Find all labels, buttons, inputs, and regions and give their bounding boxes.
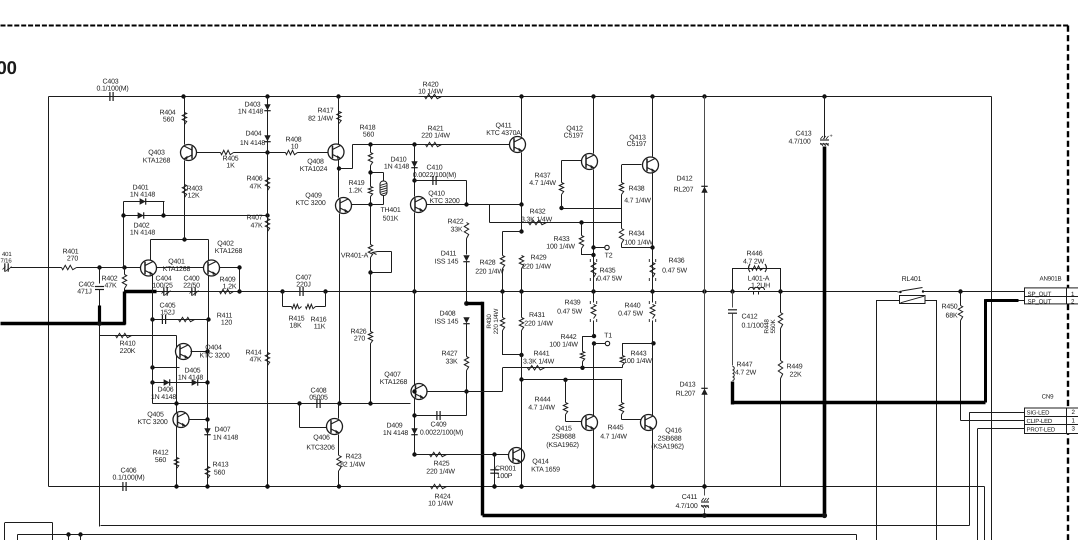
svg-text:CLIP-LED: CLIP-LED	[1027, 418, 1053, 425]
svg-text:C400: C400	[183, 276, 199, 283]
svg-text:0.0022/100(M): 0.0022/100(M)	[413, 171, 456, 179]
svg-text:C410: C410	[426, 165, 442, 172]
svg-text:0.1/100(M): 0.1/100(M)	[112, 474, 144, 482]
svg-text:R413: R413	[212, 462, 228, 469]
svg-text:CN9: CN9	[1042, 394, 1055, 401]
svg-text:R434: R434	[628, 231, 644, 238]
svg-text:T2: T2	[605, 253, 613, 260]
svg-text:401: 401	[2, 251, 12, 258]
svg-text:R414: R414	[245, 350, 261, 357]
svg-text:0.47 5W: 0.47 5W	[557, 309, 582, 316]
svg-text:68K: 68K	[946, 313, 958, 320]
svg-text:KTC 3200: KTC 3200	[295, 200, 325, 207]
svg-text:R449: R449	[786, 364, 802, 371]
svg-text:R427: R427	[441, 351, 457, 358]
svg-text:4.7 1/4W: 4.7 1/4W	[528, 404, 555, 412]
svg-text:10: 10	[291, 144, 299, 151]
svg-text:R426: R426	[350, 329, 366, 336]
svg-text:R412: R412	[152, 450, 168, 457]
svg-text:R420: R420	[422, 82, 438, 89]
svg-text:R403: R403	[186, 186, 202, 193]
svg-text:R424: R424	[434, 494, 450, 501]
svg-text:R401: R401	[62, 249, 78, 256]
svg-text:KTA1024: KTA1024	[300, 166, 328, 173]
svg-text:SP_OUT: SP_OUT	[1028, 291, 1052, 298]
svg-text:KTA1268: KTA1268	[163, 266, 191, 273]
svg-text:AN901B: AN901B	[1040, 276, 1062, 283]
svg-text:R433: R433	[553, 236, 569, 243]
svg-text:220 1/4W: 220 1/4W	[475, 268, 504, 276]
svg-text:47K: 47K	[250, 184, 262, 191]
svg-text:R428: R428	[479, 260, 495, 267]
svg-text:560: 560	[363, 132, 374, 139]
svg-text:120: 120	[221, 320, 232, 327]
svg-text:11K: 11K	[314, 324, 326, 331]
svg-text:18K: 18K	[290, 323, 302, 330]
svg-text:R430: R430	[486, 314, 493, 329]
svg-text:220 1/4W: 220 1/4W	[426, 468, 455, 476]
svg-text:Q415: Q415	[555, 426, 572, 433]
svg-text:(KSA1962): (KSA1962)	[651, 443, 684, 451]
svg-text:R447: R447	[736, 362, 752, 369]
svg-text:47K: 47K	[251, 223, 263, 230]
svg-text:D411: D411	[441, 251, 457, 258]
svg-text:R417: R417	[317, 108, 333, 115]
svg-text:C411: C411	[682, 494, 698, 501]
svg-text:R437: R437	[534, 173, 550, 180]
svg-text:1N 4148: 1N 4148	[130, 192, 155, 199]
svg-text:1.2K: 1.2K	[349, 188, 363, 195]
svg-text:82 1/4W: 82 1/4W	[308, 115, 333, 123]
svg-text:D409: D409	[386, 423, 402, 430]
svg-text:D402: D402	[133, 223, 149, 230]
svg-text:D412: D412	[676, 176, 692, 183]
svg-text:R419: R419	[348, 180, 364, 187]
svg-text:ISS 145: ISS 145	[435, 259, 459, 266]
svg-text:R441: R441	[533, 351, 549, 358]
svg-text:22/50: 22/50	[183, 282, 200, 290]
svg-text:4.7 2W: 4.7 2W	[743, 259, 765, 266]
svg-text:D401: D401	[132, 185, 148, 192]
svg-text:471J: 471J	[77, 289, 91, 296]
svg-text:KTC 3200: KTC 3200	[137, 419, 167, 426]
svg-text:560: 560	[163, 117, 174, 124]
svg-text:R443: R443	[630, 351, 646, 358]
svg-text:Q412: Q412	[566, 126, 583, 133]
svg-text:CR001: CR001	[495, 466, 516, 473]
svg-text:Q401: Q401	[168, 259, 185, 266]
svg-text:47K: 47K	[250, 357, 262, 364]
svg-text:0.0022/100(M): 0.0022/100(M)	[420, 429, 463, 437]
svg-text:R406: R406	[246, 176, 262, 183]
svg-text:R415: R415	[288, 316, 304, 323]
svg-text:R409: R409	[219, 277, 235, 284]
svg-text:220J: 220J	[296, 281, 310, 288]
svg-text:Q409: Q409	[305, 193, 322, 200]
svg-text:100 1/4W: 100 1/4W	[549, 341, 578, 349]
svg-text:560: 560	[155, 457, 166, 464]
svg-text:+: +	[829, 134, 832, 140]
svg-text:RL207: RL207	[676, 391, 696, 398]
svg-text:7/16: 7/16	[1, 258, 13, 265]
svg-text:R421: R421	[427, 126, 443, 133]
svg-text:1N 4148: 1N 4148	[238, 109, 263, 116]
svg-text:SP_OUT: SP_OUT	[1028, 299, 1052, 306]
svg-text:2SB688: 2SB688	[658, 436, 682, 443]
svg-text:R436: R436	[668, 258, 684, 265]
svg-text:1.2K: 1.2K	[223, 284, 237, 291]
svg-text:KTC3206: KTC3206	[306, 444, 335, 451]
svg-text:D410: D410	[390, 157, 406, 164]
svg-text:C406: C406	[120, 468, 136, 475]
svg-text:D407: D407	[214, 427, 230, 434]
svg-text:4.7 1/4W: 4.7 1/4W	[624, 197, 651, 205]
svg-text:R425: R425	[433, 461, 449, 468]
svg-text:550K: 550K	[770, 319, 777, 334]
svg-text:R404: R404	[159, 110, 175, 117]
svg-text:R418: R418	[359, 125, 375, 132]
svg-text:0.1/100: 0.1/100	[741, 322, 763, 330]
svg-text:100 1/4W: 100 1/4W	[624, 239, 653, 247]
svg-text:RL207: RL207	[674, 187, 694, 194]
svg-text:RL401: RL401	[902, 276, 922, 283]
svg-text:R438: R438	[628, 186, 644, 193]
svg-text:R429: R429	[530, 255, 546, 262]
svg-text:KTA1268: KTA1268	[215, 248, 243, 255]
svg-text:VR401-A: VR401-A	[341, 253, 369, 260]
svg-text:ISS 145: ISS 145	[435, 319, 459, 326]
svg-text:33K: 33K	[451, 227, 463, 234]
svg-text:100/25: 100/25	[152, 282, 173, 290]
svg-text:Q406: Q406	[313, 435, 330, 442]
svg-text:D413: D413	[679, 382, 695, 389]
svg-text:R411: R411	[217, 313, 233, 320]
svg-text:220K: 220K	[120, 348, 136, 355]
svg-text:C404: C404	[155, 276, 171, 283]
svg-text:220 1/4W: 220 1/4W	[524, 320, 553, 328]
svg-text:KTA 1659: KTA 1659	[531, 466, 560, 473]
svg-text:R432: R432	[529, 209, 545, 216]
svg-text:TH401: TH401	[380, 207, 400, 214]
svg-text:0.47 5W: 0.47 5W	[618, 311, 643, 318]
svg-text:1K: 1K	[226, 163, 235, 170]
svg-text:4.7 2W: 4.7 2W	[735, 370, 757, 377]
svg-text:R408: R408	[285, 137, 301, 144]
svg-text:22K: 22K	[790, 372, 802, 379]
svg-text:3.3K 1/4W: 3.3K 1/4W	[521, 216, 553, 224]
svg-text:0.1/100(M): 0.1/100(M)	[96, 85, 128, 93]
svg-text:3.3K 1/4W: 3.3K 1/4W	[523, 357, 555, 365]
svg-text:KTA1268: KTA1268	[143, 158, 171, 165]
svg-text:47K: 47K	[105, 283, 117, 290]
svg-text:Q402: Q402	[217, 241, 234, 248]
svg-text:501K: 501K	[383, 216, 399, 223]
svg-text:R407: R407	[246, 215, 262, 222]
svg-text:R444: R444	[534, 397, 550, 404]
svg-text:1N 4148: 1N 4148	[384, 164, 409, 171]
svg-text:Q407: Q407	[384, 372, 401, 379]
svg-text:C408: C408	[310, 388, 326, 395]
svg-text:C5197: C5197	[627, 141, 647, 148]
svg-text:4.7/100: 4.7/100	[788, 138, 810, 146]
svg-text:2SB688: 2SB688	[552, 434, 576, 441]
svg-text:R439: R439	[564, 300, 580, 307]
svg-text:10 1/4W: 10 1/4W	[428, 500, 453, 508]
svg-text:KTC 3200: KTC 3200	[199, 352, 229, 359]
svg-text:R416: R416	[310, 317, 326, 324]
svg-text:C412: C412	[741, 314, 757, 321]
svg-text:Q405: Q405	[147, 412, 164, 419]
svg-text:R446: R446	[746, 251, 762, 258]
svg-text:1N 4148: 1N 4148	[383, 430, 408, 437]
svg-text:L401-A: L401-A	[748, 276, 770, 283]
svg-text:4.7/100: 4.7/100	[675, 502, 697, 510]
svg-text:D408: D408	[439, 311, 455, 318]
svg-text:220 1/4W: 220 1/4W	[522, 263, 551, 271]
svg-text:1N 4148: 1N 4148	[240, 140, 265, 147]
svg-text:C403: C403	[102, 79, 118, 86]
svg-text:R402: R402	[101, 276, 117, 283]
svg-text:T1: T1	[604, 333, 612, 340]
svg-text:SIG-LED: SIG-LED	[1027, 410, 1051, 417]
svg-text:R405: R405	[222, 156, 238, 163]
svg-text:560: 560	[214, 470, 225, 477]
svg-text:10 1/4W: 10 1/4W	[418, 88, 443, 96]
svg-text:00: 00	[0, 57, 17, 78]
svg-text:R431: R431	[529, 312, 545, 319]
svg-text:C409: C409	[430, 422, 446, 429]
svg-text:4.7 1/4W: 4.7 1/4W	[529, 179, 556, 187]
svg-text:D405: D405	[184, 368, 200, 375]
svg-text:100P: 100P	[497, 473, 513, 480]
svg-text:C413: C413	[795, 131, 811, 138]
svg-text:1.2UH: 1.2UH	[751, 283, 770, 290]
svg-text:0.47 5W: 0.47 5W	[662, 268, 687, 275]
svg-text:R445: R445	[607, 425, 623, 432]
svg-text:270: 270	[67, 256, 78, 263]
svg-text:C402: C402	[78, 282, 94, 289]
svg-text:C405: C405	[159, 303, 175, 310]
svg-text:Q414: Q414	[532, 459, 549, 466]
svg-text:82 1/4W: 82 1/4W	[340, 461, 365, 469]
svg-text:1N 4148: 1N 4148	[213, 435, 238, 442]
svg-text:R410: R410	[119, 341, 135, 348]
svg-text:33K: 33K	[446, 359, 458, 366]
svg-text:152J: 152J	[160, 310, 174, 317]
svg-text:1N 4148: 1N 4148	[130, 230, 155, 237]
svg-text:R442: R442	[560, 334, 576, 341]
svg-text:R435: R435	[599, 268, 615, 275]
svg-text:220 1/4W: 220 1/4W	[421, 132, 450, 140]
svg-text:D406: D406	[157, 387, 173, 394]
svg-text:R422: R422	[447, 219, 463, 226]
svg-text:Q408: Q408	[307, 159, 324, 166]
svg-text:100 1/4W: 100 1/4W	[546, 243, 575, 251]
svg-text:1N 4148: 1N 4148	[151, 394, 176, 401]
svg-text:Q403: Q403	[148, 150, 165, 157]
svg-text:1N 4148: 1N 4148	[178, 375, 203, 382]
svg-text:220 1/4W: 220 1/4W	[493, 309, 500, 335]
svg-text:Q410: Q410	[428, 191, 445, 198]
svg-text:Q416: Q416	[665, 428, 682, 435]
svg-text:0.47 5W: 0.47 5W	[597, 276, 622, 283]
svg-text:D404: D404	[245, 131, 261, 138]
svg-text:R423: R423	[345, 454, 361, 461]
svg-text:D403: D403	[244, 102, 260, 109]
svg-text:Q411: Q411	[496, 123, 512, 130]
svg-text:KTA1268: KTA1268	[380, 379, 408, 386]
svg-text:270: 270	[354, 336, 365, 343]
svg-text:PROT-LED: PROT-LED	[1027, 426, 1056, 433]
svg-text:KTC 4370A: KTC 4370A	[486, 130, 521, 137]
svg-text:05005: 05005	[309, 395, 328, 402]
svg-text:C5197: C5197	[564, 133, 584, 140]
svg-text:(KSA1962): (KSA1962)	[546, 441, 579, 449]
svg-text:100 1/4W: 100 1/4W	[623, 357, 652, 365]
svg-text:12K: 12K	[188, 193, 200, 200]
svg-text:4.7 1/4W: 4.7 1/4W	[600, 433, 627, 441]
svg-text:R450: R450	[941, 304, 957, 311]
svg-text:R440: R440	[624, 303, 640, 310]
